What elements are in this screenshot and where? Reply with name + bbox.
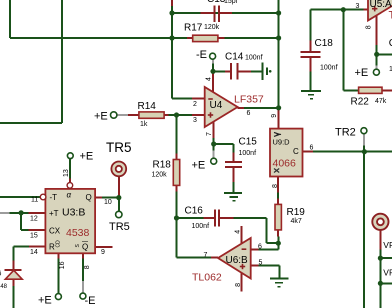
- pin stub C15 top: [233, 153, 235, 162]
- pin stub U3:B pin14: [29, 245, 45, 247]
- wire U3:B pin11: [0, 196, 40, 198]
- pin stub C13 right: [220, 12, 232, 14]
- wire long horizontal y38: [10, 37, 172, 39]
- svg-text:3: 3: [193, 117, 197, 124]
- pin stub U4 pin2: [192, 98, 205, 100]
- pin stub U6:B top power pin4: [241, 226, 243, 243]
- junction VR branch 2: [378, 281, 383, 286]
- svg-text:8: 8: [272, 184, 279, 188]
- svg-text:U5:A: U5:A: [370, 0, 392, 10]
- capacitor C18 plates: [300, 52, 320, 57]
- pin stub U4 pin7: [213, 122, 215, 138]
- svg-text:Q: Q: [82, 243, 88, 252]
- junction U5:A pin3 node: [341, 7, 346, 12]
- wire C14 right to stub cap: [238, 70, 251, 72]
- terminal TR2: [361, 128, 367, 134]
- pin stub U3:B pin10: [95, 197, 102, 199]
- junction C13 right: [276, 10, 281, 15]
- op-amp U5:A partial top right: [368, 0, 392, 21]
- wire pin8 down: [82, 259, 84, 282]
- svg-text:TL062: TL062: [389, 10, 392, 22]
- pin stub R19 bottom: [277, 230, 279, 237]
- pin stub R17 right: [218, 37, 225, 39]
- pin stub U3:B pin9 unconnected: [95, 246, 112, 248]
- capacitor C16 plates: [215, 209, 219, 226]
- pin stub C18 top: [310, 41, 312, 52]
- wire donut column x380.4: [379, 250, 381, 308]
- wire C18 top: [310, 10, 312, 41]
- wire pin13 terminal: [69, 159, 71, 179]
- wire branch y258.1: [380, 257, 392, 259]
- svg-text:100nf: 100nf: [245, 55, 263, 62]
- wire U5:A power node: [376, 45, 378, 66]
- svg-text:2: 2: [193, 101, 197, 108]
- terminal +E (U5:A): [373, 69, 379, 75]
- capacitor C14 plates: [231, 63, 238, 80]
- junction VR branch 1: [378, 256, 383, 261]
- wire horizontal to left edge y123: [0, 122, 62, 124]
- pin stub U6:B pin5: [251, 264, 259, 266]
- pin stub R18 top: [176, 154, 178, 160]
- terminal -E (C14): [210, 53, 216, 59]
- resistor R22: [359, 87, 382, 93]
- pin stub U9:D pin9 top: [278, 108, 280, 129]
- svg-text:8: 8: [235, 283, 242, 287]
- svg-text:1N4148: 1N4148: [0, 284, 8, 290]
- pin stub U4 pin4: [212, 71, 214, 92]
- svg-text:TR5: TR5: [106, 140, 132, 155]
- wire grey TR2 terminal: [363, 134, 365, 146]
- pin stub C13 left: [201, 12, 214, 14]
- svg-text:C16: C16: [185, 206, 204, 217]
- wire grey -E pin8 terminal: [82, 281, 84, 293]
- svg-text:+E: +E: [80, 151, 94, 163]
- svg-text:6: 6: [247, 110, 251, 117]
- pin stub R14 left: [128, 114, 139, 116]
- resistor R17: [193, 35, 218, 41]
- junction U4 output node: [276, 105, 281, 110]
- resistor R19: [275, 204, 281, 230]
- terminal +E (R14): [111, 112, 117, 118]
- wire C15 to ground: [233, 182, 235, 193]
- svg-text:16: 16: [59, 261, 66, 269]
- wire vertical x176.5 R18 column: [176, 115, 178, 258]
- wire -E node to C14: [212, 64, 214, 72]
- svg-text:4: 4: [206, 77, 213, 81]
- svg-text:-E: -E: [196, 49, 207, 61]
- wire U6:B pin5 to ground: [259, 264, 280, 266]
- svg-text:8: 8: [84, 265, 91, 269]
- svg-text:R18: R18: [153, 160, 172, 171]
- svg-text:U6:B: U6:B: [226, 255, 249, 266]
- svg-text:-E: -E: [85, 295, 96, 307]
- pin stub U9:D bottom: [277, 177, 279, 193]
- stub capacitor element right of C14: [262, 63, 266, 80]
- svg-text:VR5: VR5: [383, 240, 392, 250]
- svg-text:8: 8: [366, 25, 373, 29]
- svg-text:3: 3: [356, 3, 360, 10]
- junction C13 left: [169, 10, 174, 15]
- ground at U6:B pin5: [270, 279, 289, 287]
- svg-text:TR5: TR5: [109, 221, 130, 233]
- svg-text:11: 11: [31, 197, 38, 204]
- pin stub C15 bottom: [233, 167, 235, 182]
- wire U3:B pin12: [10, 212, 29, 214]
- wire grey -E terminal: [212, 59, 214, 63]
- svg-text:120k: 120k: [152, 172, 168, 179]
- svg-text:13: 13: [63, 169, 70, 177]
- svg-text:120k: 120k: [204, 24, 220, 31]
- pin stub U3:B pin15: [28, 229, 45, 231]
- resistor R14: [139, 112, 164, 118]
- svg-text:CD: CD: [56, 240, 62, 248]
- svg-text:+E: +E: [192, 160, 206, 172]
- svg-text:4: 4: [235, 230, 242, 234]
- svg-text:100nf: 100nf: [320, 65, 338, 72]
- pin stub R22 right: [382, 89, 392, 91]
- pin stub C18 bottom: [310, 57, 312, 72]
- svg-text:4066: 4066: [273, 157, 297, 169]
- pin stub R18 bottom: [176, 185, 178, 191]
- svg-text:6: 6: [310, 145, 314, 152]
- pin stub U5:A power pin8: [376, 16, 378, 45]
- junction R17 left: [169, 35, 174, 40]
- wire TR2 column x364: [363, 152, 365, 308]
- svg-text:C15: C15: [239, 137, 258, 148]
- svg-text:100nf: 100nf: [192, 223, 210, 230]
- svg-text:47k: 47k: [375, 98, 387, 105]
- svg-text:LF357: LF357: [234, 94, 264, 106]
- bubble pin11: [40, 194, 46, 200]
- wire R14 row to U4 pin3: [169, 114, 193, 116]
- wire U3:B pin14: [14, 245, 29, 247]
- svg-text:4k7: 4k7: [291, 218, 302, 225]
- svg-text:14: 14: [30, 249, 38, 256]
- wire pin16 down: [57, 259, 59, 294]
- terminal +E (pin13): [67, 153, 73, 159]
- svg-text:R14: R14: [138, 101, 157, 112]
- ground under C18: [301, 91, 321, 99]
- pin stub U3:B pin16: [57, 253, 59, 258]
- wire TR5 terminal: [118, 198, 120, 212]
- pin stub U6:B bottom power pin8: [241, 273, 243, 292]
- wire U4 output row y107.8: [244, 107, 279, 109]
- junction -E/C14 node: [210, 69, 215, 74]
- pin stub R19 top: [277, 199, 279, 205]
- wire corner x266.5: [266, 218, 268, 243]
- pin stub R17 left: [187, 37, 193, 39]
- pin stub R14 right / U4 pin3: [164, 114, 168, 116]
- terminal -E (pin8): [80, 293, 86, 299]
- resistor R18: [173, 160, 179, 186]
- wire branch y283.3: [380, 282, 392, 284]
- svg-text:15: 15: [30, 233, 38, 240]
- pin stub TR5 testpoint: [118, 177, 120, 197]
- wire U6:B pin6 up to node: [259, 248, 279, 250]
- wire to U6:B pin7: [177, 257, 213, 259]
- wire grey pin12: [0, 212, 10, 214]
- svg-text:+E: +E: [355, 67, 369, 79]
- diode D6 1N4148: [5, 269, 22, 271]
- wire grey +E U5A terminal: [376, 66, 378, 70]
- junction U3:B pin10/TR5 node: [116, 195, 121, 200]
- svg-text:U4: U4: [210, 100, 223, 111]
- wire C15 node: [213, 138, 215, 151]
- wire C18 bottom to ground: [310, 72, 312, 91]
- wire vertical left-top x62: [61, 0, 63, 123]
- wire R19 bottom to node: [277, 237, 279, 244]
- wire grey +E to R14: [117, 114, 128, 116]
- svg-text:7: 7: [204, 252, 208, 259]
- wire C16 row y218: [177, 217, 204, 219]
- svg-text:Q: Q: [86, 193, 92, 202]
- svg-text:U3:B: U3:B: [62, 207, 85, 219]
- pin stub U4 output: [238, 107, 244, 109]
- bubble pin13: [67, 183, 73, 189]
- wire x343.3 down to R22: [342, 10, 344, 91]
- test point TR5 donut: [111, 162, 126, 177]
- svg-text:9: 9: [271, 114, 278, 118]
- svg-text:100nf: 100nf: [239, 150, 257, 157]
- svg-text:R22: R22: [351, 97, 370, 108]
- svg-text:7: 7: [206, 132, 213, 136]
- svg-text:6: 6: [258, 244, 262, 251]
- svg-text:C14: C14: [225, 52, 244, 63]
- pin stub C16 left: [203, 217, 214, 219]
- analog switch U9:D 4066: [270, 129, 303, 177]
- wire U3:B pin15: [21, 229, 28, 231]
- wire node column x172: [171, 6, 173, 99]
- pin stub diode top: [13, 260, 15, 269]
- svg-text:12: 12: [30, 216, 38, 223]
- svg-text:TL062: TL062: [192, 272, 222, 284]
- svg-text:5: 5: [259, 259, 263, 266]
- junction TR2 node: [362, 149, 367, 154]
- pin stub U3:B pin12: [28, 212, 45, 214]
- junction R19/C16/U6:B pin6 node: [276, 241, 281, 246]
- wire U3:B pin10: [102, 197, 119, 199]
- wire pin14 down to diode: [13, 246, 15, 260]
- op-amp U4 LF357: [205, 87, 238, 127]
- wire vertical x10: [9, 0, 11, 38]
- wire U5:A pin3 row y9.7: [311, 9, 364, 11]
- capacitor C15 plates: [225, 162, 242, 167]
- svg-text:D6: D6: [0, 271, 2, 278]
- op-amp U6:B TL062: [218, 238, 251, 279]
- junction R14/R18 node: [174, 112, 179, 117]
- svg-text:α: α: [67, 191, 72, 200]
- svg-text:-T: -T: [50, 193, 58, 202]
- junction R18/C16 node: [174, 215, 179, 220]
- wire grey +E C15 terminal: [213, 151, 215, 159]
- svg-text:R: R: [49, 243, 55, 252]
- svg-text:10: 10: [104, 199, 112, 206]
- wire R17 row y38: [172, 37, 279, 39]
- pin stub U6:B pin7: [211, 257, 218, 259]
- wire pin12 to pin15: [20, 213, 22, 230]
- svg-text:U9:D: U9:D: [273, 138, 291, 147]
- ground under C15: [224, 193, 242, 201]
- test point TR2 donut: [372, 214, 388, 230]
- svg-text:C18: C18: [315, 38, 334, 49]
- svg-text:+E: +E: [38, 295, 52, 307]
- pin stub TR2 testpoint: [379, 230, 381, 249]
- junction R17 right: [276, 35, 281, 40]
- svg-text:C13: C13: [207, 0, 226, 5]
- svg-text:4538: 4538: [66, 227, 90, 239]
- wire diode bottom: [13, 286, 15, 308]
- pin stub diode bottom: [13, 279, 15, 286]
- pin stub U3:B pin13: [69, 179, 71, 183]
- capacitor C13 plates: [214, 6, 219, 23]
- wire C13 row y13: [172, 12, 279, 14]
- junction U5:A power node: [374, 52, 379, 57]
- wire right column x278.6: [278, 0, 280, 108]
- junction U3:B pin12 node: [19, 210, 24, 215]
- svg-text:9: 9: [101, 249, 105, 256]
- pin stub U5:A pin3: [364, 9, 369, 11]
- svg-text:15pf: 15pf: [224, 0, 238, 5]
- pin stub U6:B pin6: [251, 248, 259, 250]
- terminal +E (pin16): [55, 294, 61, 300]
- terminal +E (C15): [211, 158, 217, 164]
- pin stub C14 right: [238, 70, 251, 72]
- terminal TR5: [116, 211, 122, 217]
- grey wire stubs: [0, 59, 377, 293]
- svg-text:1k: 1k: [140, 121, 148, 128]
- pin stub top x172: [171, 0, 173, 6]
- pin stub C14 left: [225, 70, 230, 72]
- wire to U4 pin2: [172, 98, 192, 100]
- svg-text:R19: R19: [287, 207, 306, 218]
- svg-text:+E: +E: [94, 111, 108, 123]
- svg-text:TR2: TR2: [335, 126, 356, 138]
- pin stub C16 right: [220, 217, 234, 219]
- svg-text:C: C: [293, 147, 299, 156]
- pin stub U3:B pin8: [82, 253, 84, 258]
- svg-text:VR6: VR6: [383, 267, 392, 277]
- IC U3:B 4538: [45, 189, 95, 253]
- wire U9:D bottom pin gap: [277, 193, 279, 199]
- svg-text:R17: R17: [184, 23, 203, 34]
- pin stub U9:D pin6: [303, 151, 313, 153]
- wire U9:D pin6 row y151.7: [313, 151, 392, 153]
- junction U4 pin7 node: [211, 141, 216, 146]
- svg-text:+T: +T: [49, 209, 59, 218]
- svg-text:CX: CX: [49, 227, 61, 236]
- wire TR2 stub: [363, 146, 365, 152]
